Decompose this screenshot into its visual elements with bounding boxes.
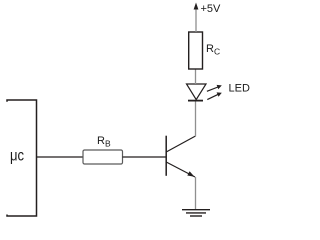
ground symbol line 3 bbox=[190, 215, 202, 217]
wire LED anode to RC bbox=[195, 69, 197, 84]
LED light arrow 1 bbox=[207, 87, 218, 91]
LED D1 triangle bbox=[187, 84, 207, 100]
ground symbol line 1 bbox=[182, 209, 210, 211]
transistor Q1 emitter diagonal bbox=[166, 162, 195, 177]
svg-text:LED: LED bbox=[229, 83, 250, 95]
resistor RB bbox=[83, 150, 123, 164]
wire RC to +5V bbox=[195, 8, 197, 32]
svg-text:RC: RC bbox=[206, 43, 220, 57]
transistor Q1 emitter arrowhead bbox=[187, 171, 194, 177]
wire emitter to ground bbox=[195, 177, 197, 210]
LED D1 cathode bar bbox=[188, 100, 203, 102]
svg-text:+5V: +5V bbox=[201, 3, 222, 15]
svg-text:μc: μc bbox=[10, 148, 24, 165]
microcontroller block U1 (partial box) bbox=[7, 100, 37, 216]
wire base: RB to transistor bbox=[123, 156, 167, 158]
ground symbol line 2 bbox=[186, 212, 206, 214]
transistor Q1 collector diagonal bbox=[166, 136, 195, 152]
wire base: uC to RB bbox=[37, 156, 84, 158]
wire collector vertical bbox=[195, 101, 197, 136]
+5V arrowhead bbox=[194, 3, 199, 10]
transistor Q1 base bar bbox=[165, 136, 167, 176]
svg-text:RB: RB bbox=[97, 135, 111, 149]
resistor RC bbox=[189, 32, 203, 69]
LED light arrow 2 bbox=[207, 94, 218, 99]
